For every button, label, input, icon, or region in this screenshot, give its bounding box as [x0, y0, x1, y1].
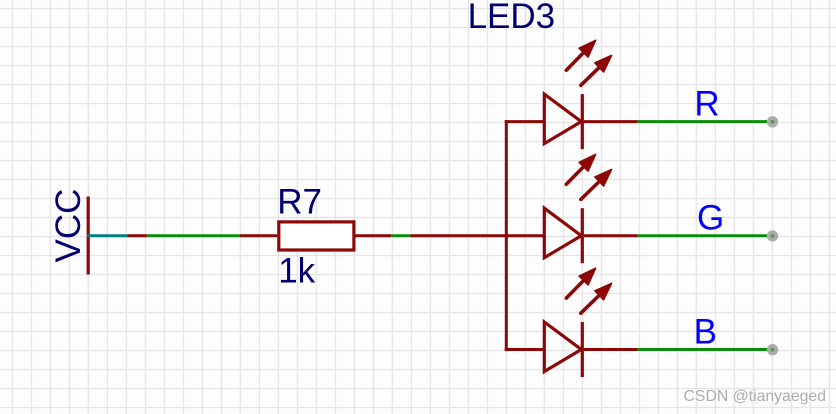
svg-text:G: G	[697, 199, 724, 238]
LED red: emission arrow 2	[581, 55, 612, 85]
svg-text:B: B	[694, 313, 717, 352]
wire anode R	[505, 120, 545, 123]
node port G dot	[767, 230, 778, 241]
LED red: triangle	[544, 94, 581, 144]
LED green: cathode bar	[581, 208, 584, 263]
LED blue: cathode bar	[581, 322, 584, 377]
svg-text:1k: 1k	[278, 251, 315, 290]
LED green: emission arrow 1	[566, 154, 595, 184]
svg-text:R7: R7	[277, 183, 322, 222]
LED blue: emission arrow 2	[581, 283, 612, 313]
wire green net R	[638, 120, 770, 123]
wire red cathode G	[584, 234, 638, 237]
power symbol VCC (bar)	[87, 197, 90, 275]
LED red: cathode bar	[581, 94, 584, 149]
LED blue: emission arrow 1	[566, 268, 595, 298]
wire red segment	[128, 234, 147, 237]
resistor R7	[279, 222, 354, 250]
svg-text:CSDN @tianyaeged: CSDN @tianyaeged	[684, 388, 826, 405]
wire red segment to LED G anode	[410, 234, 544, 237]
svg-text:R: R	[694, 85, 719, 124]
wire green segment	[147, 234, 240, 237]
LED blue: triangle	[544, 322, 581, 372]
LED green: emission arrow 2	[581, 170, 612, 200]
wire green net B	[638, 348, 770, 351]
svg-text:LED3: LED3	[468, 0, 556, 36]
wire bus vertical joining anodes	[505, 120, 508, 351]
wire anode B	[505, 348, 545, 351]
node port R dot	[767, 116, 778, 127]
LED green: triangle	[544, 208, 581, 258]
wire red segment to resistor	[240, 234, 277, 237]
wire green net G	[638, 234, 770, 237]
wire green segment	[391, 234, 410, 237]
LED red: emission arrow 1	[566, 40, 595, 70]
node port B dot	[767, 344, 778, 355]
wire red cathode B	[584, 348, 638, 351]
wire red cathode R	[584, 120, 638, 123]
wire teal segment net VCC	[88, 234, 127, 237]
svg-text:VCC: VCC	[49, 189, 88, 263]
wire red segment after resistor	[355, 234, 391, 237]
